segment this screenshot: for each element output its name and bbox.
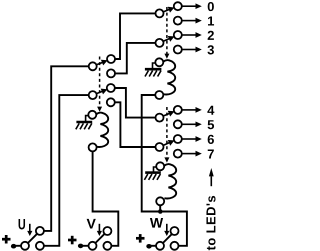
V common contact [89, 242, 97, 250]
wire coil W-top to bottom bus [142, 95, 187, 246]
pole B1 [156, 114, 164, 122]
value label 3 [207, 45, 213, 54]
throw 7 [174, 150, 182, 158]
button W [163, 234, 172, 243]
output arrows 0-7 [182, 3, 202, 156]
coil W-bottom terminals [156, 162, 164, 205]
label to LED's [206, 196, 215, 250]
ground for coil V [76, 116, 92, 130]
ground for coil W-bottom [144, 167, 160, 180]
blade U [28, 234, 37, 243]
pole V2 [89, 91, 97, 99]
label U [19, 219, 25, 229]
label W [150, 218, 163, 228]
U plus dot [11, 244, 16, 249]
output arrow to LED 0 [182, 5, 197, 7]
wire coil V down to V button lower throw [93, 151, 119, 245]
wire V2 upper throw to pole B1 [115, 88, 156, 118]
blade W [163, 234, 172, 243]
V upper throw [103, 227, 111, 235]
W lower throw [171, 242, 179, 250]
wire W plus dot to common [151, 245, 157, 247]
coil V [96, 113, 108, 147]
press arrow V [97, 224, 102, 236]
wire from U upper throw up to pole V1 [44, 66, 89, 231]
output arrow to LED 7 [182, 153, 197, 155]
wire V1 upper throw to pole A1 [115, 13, 155, 59]
value label 2 [208, 31, 214, 40]
blade arrow pole V2 to throw V2u [96, 91, 103, 94]
linkage arrow into coil V [97, 107, 102, 112]
W plus terminal [136, 234, 145, 243]
value label 5 [208, 120, 214, 129]
throw 5 [174, 120, 182, 128]
wire coil W-bottom to bus junction [159, 205, 161, 211]
button U [28, 234, 37, 243]
throw 4 [174, 106, 182, 114]
dashed linkage relay W top contacts [100, 7, 167, 158]
arrow to LED's [209, 168, 214, 186]
junction node on W coil bus [158, 209, 163, 214]
press arrow U [27, 224, 32, 236]
contact circles [89, 2, 182, 157]
wire V1 lower throw to pole A2 [115, 43, 155, 74]
output arrow to LED 3 [182, 49, 197, 51]
blade arrow pole A2 to throw 2 [163, 38, 170, 41]
V lower throw [103, 242, 111, 250]
throw 3 [174, 46, 182, 54]
ground for coil W-top [145, 63, 162, 77]
wire V2 lower throw to pole B2 [115, 102, 156, 147]
output arrow to LED 6 [182, 138, 197, 140]
value label 0 [208, 2, 214, 11]
button V [95, 234, 104, 243]
wire U plus dot to common [15, 245, 22, 247]
coil W-bottom upper terminal [156, 162, 164, 170]
value label 1 [208, 17, 214, 26]
press arrow W [164, 224, 169, 236]
linkage arrow into coil W-bottom [164, 157, 169, 162]
wire V plus dot to common [83, 245, 89, 247]
value label 7 [208, 150, 214, 159]
blade arrow pole A1 to throw 0 [96, 7, 174, 146]
throw V2u [107, 84, 115, 92]
pole A1 [156, 9, 164, 17]
throw V1u [107, 55, 115, 63]
throw 6 [174, 135, 182, 143]
output arrow to LED 1 [182, 20, 197, 22]
output arrow to LED 5 [182, 123, 197, 125]
coil V terminals [88, 111, 96, 152]
V plus terminal [68, 236, 77, 245]
value label 6 [208, 135, 214, 144]
V plus dot [78, 244, 83, 249]
coil V lower terminal [89, 143, 97, 151]
coil W-top lower terminal [155, 91, 163, 99]
coil V upper terminal [88, 111, 96, 119]
coil W-bottom lower terminal [156, 197, 164, 205]
blade arrow pole V1 to throw V1u [96, 62, 103, 65]
U common contact [21, 242, 29, 250]
throw V2l [107, 98, 115, 106]
output arrow to LED 2 [182, 34, 197, 36]
W plus dot [146, 244, 151, 249]
coil W-bottom [160, 164, 176, 205]
throw 0 [174, 2, 182, 10]
value label 4 [207, 106, 214, 115]
coil W-top terminals [155, 58, 163, 99]
U lower throw [36, 242, 44, 250]
throw 2 [174, 31, 182, 39]
coil W-top [163, 60, 175, 94]
dashed linkage relay W bottom contacts [166, 107, 168, 158]
blade V [95, 234, 104, 243]
U upper throw [36, 227, 44, 235]
coil W-top upper terminal [155, 58, 163, 66]
W common contact [156, 242, 164, 250]
pole V1 [89, 62, 97, 70]
label V [87, 219, 96, 229]
blade arrow pole B1 to throw 4 [163, 113, 170, 116]
U plus terminal [2, 235, 11, 244]
wire from U lower throw up to pole V2 [44, 95, 89, 246]
pole B2 [156, 143, 164, 151]
output arrow to LED 4 [182, 109, 197, 111]
output digits 0-7 [207, 2, 214, 158]
throw 1 [174, 17, 182, 25]
throw V1l [107, 69, 115, 77]
pole A2 [156, 39, 164, 47]
linkage arrow into coil W-top [97, 54, 169, 163]
dashed linkage relay V contacts [99, 57, 101, 108]
blade arrow pole B2 to throw 6 [163, 142, 170, 145]
W upper throw [171, 227, 179, 235]
